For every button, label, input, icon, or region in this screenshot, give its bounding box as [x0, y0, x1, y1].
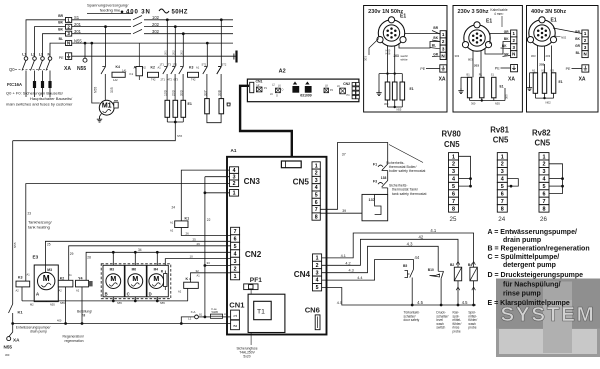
- svg-text:probe: probe: [468, 326, 476, 330]
- svg-text:1T1: 1T1: [160, 63, 165, 67]
- svg-text:door safety: door safety: [404, 318, 420, 322]
- svg-text:103: 103: [164, 90, 168, 96]
- tap square: [227, 103, 230, 106]
- svg-text:230v 1N 50hz: 230v 1N 50hz: [368, 9, 403, 15]
- svg-text:203: 203: [474, 64, 479, 68]
- plug wires box2: [472, 51, 474, 78]
- svg-text:Q0 + F0: Sicherungen Bauseits/: Q0 + F0: Sicherungen Bauseits/: [6, 91, 64, 96]
- svg-text:L1: L1: [22, 53, 26, 57]
- svg-text:7: 7: [543, 199, 546, 205]
- svg-text:28: 28: [87, 256, 91, 260]
- svg-text:BR: BR: [58, 14, 63, 18]
- svg-text:A2: A2: [178, 290, 182, 294]
- svg-text:203: 203: [546, 54, 551, 58]
- svg-text:3: 3: [234, 259, 237, 265]
- svg-text:K1: K1: [130, 72, 134, 76]
- wire 39 to CN5 pin8: [320, 212, 362, 214]
- svg-text:PE: PE: [566, 67, 571, 71]
- svg-text:4T2: 4T2: [168, 78, 173, 82]
- svg-text:400v 3N 50hz: 400v 3N 50hz: [531, 9, 566, 15]
- svg-text:PE: PE: [420, 67, 425, 71]
- svg-text:F1: F1: [373, 162, 377, 166]
- terminal stack box3: [582, 30, 588, 37]
- svg-text:5x20: 5x20: [243, 355, 250, 359]
- svg-text:7: 7: [452, 199, 455, 205]
- svg-text:N2: N2: [542, 69, 546, 73]
- wire L3 to block 3: [43, 34, 66, 57]
- bus N55: [72, 42, 233, 44]
- svg-text:K1: K1: [18, 310, 24, 315]
- svg-text:C = Spülmittelpumpe/: C = Spülmittelpumpe/: [488, 254, 560, 261]
- svg-text:BR: BR: [433, 26, 438, 30]
- svg-text:Rv81: Rv81: [490, 126, 509, 135]
- terminal XA N55 tap: [84, 43, 86, 58]
- svg-text:1: 1: [234, 274, 237, 280]
- svg-text:33: 33: [207, 261, 211, 265]
- svg-text:A2: A2: [76, 289, 80, 293]
- svg-text:1A2: 1A2: [113, 78, 118, 82]
- svg-text:BK: BK: [58, 21, 63, 25]
- svg-text:BL: BL: [432, 43, 436, 47]
- svg-text:N: N: [48, 53, 51, 57]
- svg-text:5: 5: [234, 244, 237, 250]
- terminal circles: [24, 57, 28, 61]
- svg-text:5: 5: [501, 184, 504, 190]
- svg-text:N55: N55: [13, 242, 17, 248]
- svg-text:2: 2: [501, 162, 504, 168]
- svg-text:2: 2: [442, 39, 445, 44]
- svg-text:B: B: [105, 291, 108, 296]
- svg-text:K4: K4: [116, 65, 120, 69]
- svg-text:N55: N55: [397, 108, 402, 112]
- svg-text:M: M: [43, 274, 50, 283]
- svg-text:N3: N3: [551, 69, 555, 73]
- svg-text:E1: E1: [400, 14, 406, 20]
- svg-text:305: 305: [505, 94, 509, 99]
- heater element E1a: [166, 20, 168, 67]
- svg-text:N: N: [512, 52, 515, 57]
- wire 45 common: [322, 288, 476, 306]
- svg-text:CN2: CN2: [245, 250, 262, 259]
- coil drops to rails: [21, 287, 23, 301]
- svg-text:631099: 631099: [300, 94, 311, 98]
- pump D box: [147, 265, 168, 297]
- svg-text:GR: GR: [433, 52, 438, 56]
- svg-text:32: 32: [196, 269, 200, 273]
- svg-text:4.3: 4.3: [407, 241, 413, 246]
- svg-text:A2: A2: [279, 69, 286, 75]
- RV80 jumpers pins 1-4-5: [459, 156, 471, 186]
- svg-text:303: 303: [180, 90, 184, 96]
- motor M3 drain pump: [38, 272, 55, 289]
- svg-text:N55: N55: [60, 301, 65, 305]
- svg-text:N55: N55: [495, 102, 500, 106]
- svg-text:N02: N02: [546, 101, 552, 105]
- wire 43: [322, 246, 439, 272]
- svg-text:B5: B5: [403, 264, 407, 268]
- svg-text:24: 24: [498, 216, 505, 223]
- svg-text:2: 2: [452, 162, 455, 168]
- svg-text:PE: PE: [495, 66, 500, 70]
- svg-text:201: 201: [163, 50, 167, 55]
- svg-text:29: 29: [197, 242, 201, 246]
- svg-text:23: 23: [28, 212, 32, 216]
- svg-text:4.2: 4.2: [345, 261, 350, 265]
- svg-text:CN3: CN3: [244, 177, 261, 186]
- svg-text:50HZ: 50HZ: [172, 10, 188, 16]
- bus 102 with contact S1: [72, 19, 131, 21]
- svg-text:N55: N55: [177, 134, 183, 138]
- svg-text:BL: BL: [576, 51, 580, 55]
- svg-text:A2: A2: [59, 289, 63, 293]
- svg-text:O: O: [276, 95, 278, 98]
- svg-text:4.5: 4.5: [417, 300, 423, 305]
- option box 230v 1N 50hz: [364, 6, 447, 113]
- motor pump D: [149, 274, 164, 289]
- svg-text:34: 34: [138, 248, 142, 252]
- svg-text:26: 26: [186, 232, 190, 236]
- svg-text:CN5: CN5: [444, 140, 460, 149]
- svg-text:302: 302: [152, 29, 160, 34]
- svg-text:R1: R1: [479, 73, 483, 77]
- svg-text:6: 6: [452, 192, 455, 198]
- svg-text:K3: K3: [189, 66, 193, 70]
- svg-text:CN5: CN5: [535, 139, 551, 148]
- svg-text:6: 6: [501, 192, 504, 198]
- svg-text:1: 1: [315, 163, 318, 169]
- svg-text:303: 303: [364, 56, 368, 61]
- svg-text:N: N: [67, 41, 70, 46]
- svg-text:2: 2: [543, 162, 546, 168]
- motor pump B: [106, 274, 121, 289]
- svg-text:B = Regeneration/regeneration: B = Regeneration/regeneration: [488, 245, 590, 252]
- svg-text:CN5: CN5: [293, 178, 310, 187]
- svg-text:CN1: CN1: [256, 79, 263, 83]
- svg-text:CN4: CN4: [294, 270, 311, 279]
- option box 230v 3 50hz: [453, 6, 522, 113]
- svg-text:A1: A1: [69, 273, 73, 277]
- svg-text:3: 3: [316, 270, 319, 276]
- svg-text:39: 39: [342, 209, 346, 213]
- svg-text:37: 37: [342, 153, 346, 157]
- svg-text:203: 203: [394, 54, 400, 58]
- heater E2 common wire: [207, 114, 221, 123]
- svg-text:Rv82: Rv82: [532, 128, 551, 137]
- svg-text:M1: M1: [102, 103, 112, 110]
- svg-text:N02: N02: [561, 36, 567, 40]
- svg-text:GR: GR: [504, 30, 509, 34]
- svg-text:S1: S1: [491, 73, 495, 77]
- svg-text:4: 4: [543, 177, 546, 183]
- svg-text:3: 3: [315, 178, 318, 184]
- svg-text:PE: PE: [59, 56, 64, 60]
- svg-text:230v 3 50hz: 230v 3 50hz: [458, 9, 489, 15]
- wire 32 coil K4 to CN2: [191, 273, 231, 282]
- connector CN2: [231, 227, 240, 235]
- svg-text:main switches and fuses by cus: main switches and fuses by customer: [6, 102, 73, 107]
- svg-text:4: 4: [501, 177, 504, 183]
- svg-text:5: 5: [315, 193, 318, 199]
- Rv81 jumper pins 4-5: [507, 179, 518, 187]
- svg-text:3: 3: [442, 46, 445, 51]
- svg-text:A1: A1: [231, 148, 237, 153]
- wire 28 pump rail: [86, 252, 231, 280]
- earth termination bar: [235, 51, 237, 63]
- svg-text:137: 137: [369, 198, 375, 202]
- rail to terminal XA N55: [11, 322, 14, 325]
- svg-text:1: 1: [233, 191, 236, 197]
- svg-text:fill: fill: [82, 314, 85, 318]
- svg-text:44: 44: [415, 255, 420, 260]
- svg-text:1: 1: [452, 154, 455, 160]
- svg-text:2T1: 2T1: [161, 78, 166, 82]
- heater element E2a: [206, 43, 208, 66]
- svg-text:1: 1: [316, 256, 319, 262]
- svg-text:regeneration: regeneration: [65, 339, 84, 343]
- terminal stack box2: [511, 30, 517, 37]
- thick feed wire A2 CN1 to A1: [240, 86, 292, 163]
- svg-text:N55: N55: [94, 87, 98, 93]
- svg-text:360: 360: [471, 102, 476, 106]
- plug E1 box3: [529, 20, 555, 46]
- svg-text:B4: B4: [468, 263, 472, 267]
- svg-text:5: 5: [543, 184, 546, 190]
- svg-text:8: 8: [452, 206, 455, 212]
- svg-text:K2: K2: [60, 276, 65, 280]
- connector CN3: [230, 167, 239, 174]
- svg-text:drain pump: drain pump: [503, 237, 541, 244]
- svg-text:XA: XA: [13, 338, 20, 343]
- A2 relay k2: [276, 88, 281, 93]
- svg-text:tank heating: tank heating: [28, 224, 50, 229]
- svg-text:E = Klarspülmittelpumpe: E = Klarspülmittelpumpe: [488, 300, 570, 307]
- svg-text:probe: probe: [453, 330, 461, 334]
- svg-text:E3: E3: [33, 255, 39, 260]
- svg-text:1: 1: [442, 32, 445, 37]
- svg-text:300: 300: [384, 102, 389, 106]
- svg-text:M6: M6: [132, 267, 137, 271]
- wire 23 CN3 pin2 tank heating: [26, 184, 230, 282]
- svg-text:N: N: [583, 52, 586, 57]
- svg-text:E1: E1: [500, 85, 504, 89]
- svg-text:N55: N55: [50, 303, 55, 307]
- svg-text:M3: M3: [110, 267, 115, 271]
- svg-text:ST1: ST1: [202, 63, 207, 67]
- terminal stack box1: [440, 31, 446, 38]
- wire L2 to block 2: [35, 27, 66, 57]
- A2 relay k3: [324, 88, 329, 93]
- svg-text:M: M: [110, 276, 116, 283]
- wire 29 to coil K2: [69, 246, 231, 280]
- svg-text:22: 22: [207, 218, 211, 222]
- svg-text:T42: T42: [191, 78, 196, 82]
- heater elements box1: [386, 72, 388, 74]
- svg-text:A1: A1: [196, 66, 200, 70]
- capacitor at M1: [114, 102, 118, 108]
- svg-text:4.1: 4.1: [430, 228, 436, 233]
- svg-text:C: C: [127, 291, 130, 296]
- terminal XA L1 with fuse: [180, 322, 183, 325]
- heater element E2b: [220, 20, 222, 67]
- svg-text:M4: M4: [154, 267, 159, 271]
- svg-text:BK: BK: [502, 44, 507, 48]
- option box 400v 3N 50hz: [527, 6, 599, 113]
- svg-text:5A0B: 5A0B: [212, 310, 219, 314]
- svg-text:B2: B2: [450, 263, 454, 267]
- svg-text:A2: A2: [170, 229, 174, 233]
- svg-text:A1: A1: [27, 273, 31, 277]
- svg-text:7: 7: [501, 199, 504, 205]
- svg-text:6: 6: [315, 200, 318, 206]
- svg-text:CN1: CN1: [229, 301, 245, 310]
- svg-text:8: 8: [315, 214, 318, 220]
- svg-text:T1: T1: [257, 309, 265, 316]
- pump box dashed: [101, 264, 171, 299]
- svg-text:25: 25: [193, 237, 197, 241]
- bottom feed line to CN1: [13, 323, 231, 325]
- wire 24 CN3 pin4 to coil K1: [181, 170, 229, 221]
- plug E1 box2: [464, 25, 490, 51]
- logo watermark: [496, 279, 600, 358]
- svg-text:303: 303: [455, 54, 460, 58]
- svg-text:feeding line: feeding line: [100, 8, 121, 13]
- svg-text:BK: BK: [575, 37, 580, 41]
- bus PE: [72, 55, 236, 57]
- svg-text:202: 202: [171, 50, 175, 55]
- wire CN3 pin3: [205, 176, 230, 178]
- thermostat box 137: [362, 194, 388, 220]
- wire 42: [322, 239, 458, 265]
- svg-text:BK: BK: [504, 37, 509, 41]
- svg-text:L1: L1: [188, 317, 192, 321]
- terminal block XA 1/2/3/N: [66, 18, 72, 23]
- svg-text:M2: M2: [30, 303, 34, 307]
- svg-text:24: 24: [172, 206, 176, 210]
- heater E1 common wire to N55 rail: [166, 117, 168, 122]
- leader to fuse note: [250, 290, 252, 345]
- svg-text:25: 25: [450, 216, 457, 223]
- bus 302 with contact: [72, 33, 131, 35]
- svg-text:BR: BR: [575, 30, 580, 34]
- svg-text:2: 2: [316, 263, 319, 269]
- connector CN4: [313, 254, 322, 261]
- svg-text:N55: N55: [117, 301, 122, 305]
- svg-text:302: 302: [179, 50, 183, 55]
- svg-text:400 3N: 400 3N: [126, 10, 151, 16]
- svg-text:BK: BK: [58, 28, 63, 32]
- svg-text:3: 3: [501, 169, 504, 175]
- svg-text:303: 303: [531, 54, 536, 58]
- svg-text:4 mm²: 4 mm²: [494, 12, 504, 16]
- svg-text:4.3: 4.3: [349, 269, 354, 273]
- svg-text:XA: XA: [508, 77, 515, 83]
- heater element E1c: [182, 34, 184, 67]
- svg-text:138: 138: [381, 176, 387, 180]
- svg-text:M: M: [132, 276, 138, 283]
- svg-text:E1: E1: [486, 19, 492, 25]
- svg-text:25: 25: [47, 243, 51, 247]
- svg-text:203: 203: [539, 63, 544, 67]
- wire 26 coil K1 to CN2: [181, 228, 230, 236]
- wire 44: [322, 260, 414, 281]
- svg-text:PF1: PF1: [250, 277, 262, 284]
- svg-text:10: 10: [190, 255, 194, 259]
- svg-text:4: 4: [315, 185, 318, 191]
- svg-text:2: 2: [315, 171, 318, 177]
- svg-text:A2: A2: [16, 289, 20, 293]
- svg-text:308: 308: [218, 90, 222, 96]
- svg-text:7: 7: [234, 229, 237, 235]
- svg-text:detergent pump: detergent pump: [503, 262, 556, 269]
- svg-text:42: 42: [419, 234, 424, 239]
- svg-text:E1: E1: [188, 102, 192, 106]
- svg-text:D = Drucksteigerungspumpe: D = Drucksteigerungspumpe: [488, 272, 584, 279]
- switch contact K1 drain: [9, 304, 13, 313]
- svg-text:XA: XA: [579, 77, 586, 83]
- plug E1 box1: [378, 20, 404, 46]
- svg-text:BK: BK: [433, 36, 438, 40]
- svg-text:K2: K2: [151, 66, 155, 70]
- svg-text:307: 307: [203, 90, 207, 96]
- svg-text:29: 29: [70, 252, 74, 256]
- svg-text:O: O: [282, 89, 284, 92]
- svg-text:803: 803: [468, 58, 473, 62]
- svg-text:N55: N55: [160, 301, 165, 305]
- svg-text:305: 305: [110, 87, 114, 93]
- svg-text:6T3: 6T3: [174, 78, 179, 82]
- motor M1: [99, 100, 114, 115]
- svg-text:K1: K1: [185, 217, 190, 221]
- bus 202 with contact: [72, 26, 131, 28]
- svg-text:switch: switch: [436, 326, 445, 330]
- svg-text:N2: N2: [143, 66, 147, 70]
- svg-text:4: 4: [316, 278, 319, 284]
- svg-text:1: 1: [543, 154, 546, 160]
- svg-text:1: 1: [501, 154, 504, 160]
- svg-text:6: 6: [543, 192, 546, 198]
- Rv82 jumpers pins 2-4-5-6: [549, 164, 563, 194]
- svg-text:6: 6: [234, 236, 237, 242]
- svg-text:boiler safety thermostat: boiler safety thermostat: [389, 169, 425, 173]
- pump B box: [103, 265, 124, 297]
- svg-text:BL: BL: [59, 37, 63, 41]
- svg-text:CN2: CN2: [343, 82, 350, 86]
- svg-text:N1: N1: [532, 69, 536, 73]
- svg-text:E1: E1: [559, 80, 563, 84]
- PE terminal: [66, 53, 72, 60]
- plug wires box3: [537, 46, 539, 73]
- svg-text:für Nachspülung/: für Nachspülung/: [503, 282, 561, 289]
- connector CN5: [312, 162, 320, 169]
- svg-text:300: 300: [5, 353, 10, 357]
- svg-text:Hauptschalter Bauseits/: Hauptschalter Bauseits/: [30, 96, 73, 101]
- top connector on A1: [281, 161, 301, 168]
- svg-text:ST2: ST2: [222, 63, 227, 67]
- svg-text:A1: A1: [170, 221, 174, 225]
- motor pump C: [128, 274, 143, 289]
- svg-text:A = Entwässerungspumpe/: A = Entwässerungspumpe/: [488, 229, 577, 236]
- svg-text:N55: N55: [77, 66, 86, 72]
- wire 302 to motor M1 with contact: [105, 27, 107, 67]
- plug wires box1: [387, 46, 389, 74]
- wire L1 to block 1: [26, 20, 66, 57]
- svg-text:RV80: RV80: [442, 130, 462, 139]
- svg-text:5: 5: [316, 285, 319, 291]
- svg-text:K3: K3: [18, 276, 23, 280]
- svg-text:2: 2: [234, 266, 237, 272]
- wire N to block N: [50, 43, 66, 56]
- wire 10 pump D resistor to CN2: [165, 259, 230, 266]
